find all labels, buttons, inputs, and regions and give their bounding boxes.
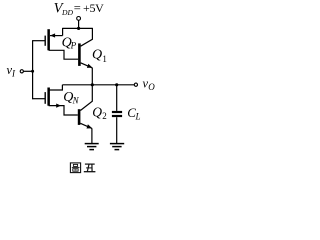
- svg-text:P: P: [70, 41, 77, 51]
- svg-text:N: N: [72, 95, 80, 105]
- svg-text:L: L: [135, 112, 141, 122]
- svg-text:O: O: [148, 82, 155, 92]
- svg-text:1: 1: [102, 54, 107, 64]
- svg-text:Q: Q: [92, 105, 102, 120]
- svg-text:2: 2: [102, 111, 107, 121]
- svg-text:DD: DD: [61, 8, 73, 17]
- svg-text:=: =: [74, 1, 81, 15]
- svg-text:Q: Q: [92, 48, 102, 63]
- svg-text:+5V: +5V: [83, 1, 104, 15]
